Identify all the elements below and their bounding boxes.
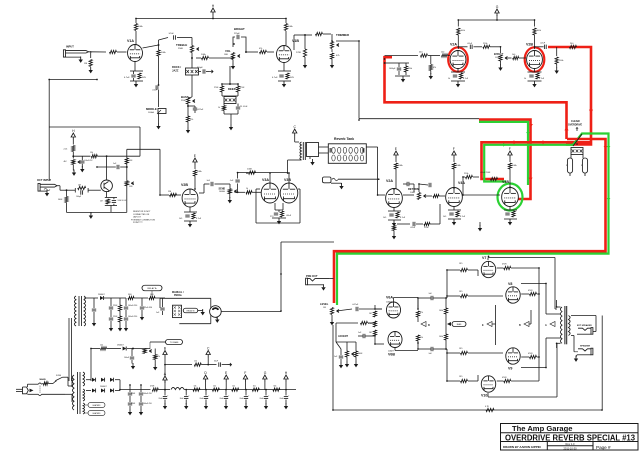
svg-text:100uF-25V: 100uF-25V (85, 160, 94, 162)
svg-text:1k: 1k (246, 188, 248, 190)
svg-text:4.7uF: 4.7uF (272, 77, 278, 79)
svg-text:POSSIBLE CONNECTION: POSSIBLE CONNECTION (131, 219, 155, 221)
svg-text:RELAY B: RELAY B (187, 310, 196, 313)
svg-text:2.2k: 2.2k (64, 149, 68, 151)
svg-text:2N4007: 2N4007 (117, 345, 124, 347)
svg-text:100K 4.7uF: 100K 4.7uF (118, 200, 127, 202)
svg-text:F: F (509, 147, 511, 151)
svg-text:240K: 240K (358, 353, 363, 355)
svg-text:.02uF 250K: .02uF 250K (480, 172, 491, 174)
svg-text:100k: 100k (461, 30, 465, 32)
svg-text:220k: 220k (408, 68, 412, 70)
svg-text:47k: 47k (157, 356, 160, 358)
svg-text:560K: 560K (58, 199, 63, 201)
svg-text:225pF: 225pF (234, 33, 240, 35)
svg-text:267: 267 (100, 201, 103, 203)
svg-text:V1A: V1A (127, 39, 134, 43)
svg-text:BIAS: BIAS (457, 323, 462, 326)
svg-text:1k: 1k (218, 107, 220, 109)
svg-text:12k: 12k (190, 119, 193, 121)
svg-text:V6A: V6A (386, 296, 393, 300)
svg-text:G: G (264, 371, 267, 375)
svg-text:RELAY A: RELAY A (148, 287, 157, 290)
svg-text:.02uF: .02uF (467, 43, 473, 45)
svg-text:470R: 470R (502, 377, 507, 379)
svg-text:Page #: Page # (596, 445, 611, 450)
svg-text:220K: 220K (113, 316, 118, 318)
svg-text:ACCENT: ACCENT (338, 335, 349, 338)
svg-text:TO BIAS: TO BIAS (170, 341, 179, 344)
svg-text:220k: 220k (424, 227, 428, 229)
svg-text:B: B (519, 324, 521, 327)
svg-text:470R: 470R (528, 290, 533, 292)
svg-text:47k: 47k (420, 312, 423, 314)
svg-text:1k: 1k (448, 78, 450, 80)
svg-text:V7: V7 (482, 256, 486, 260)
svg-text:20uF: 20uF (220, 398, 224, 400)
svg-text:V9: V9 (508, 367, 512, 371)
svg-text:BASS: BASS (181, 95, 189, 99)
svg-text:DEEP: DEEP (228, 87, 236, 91)
svg-text:20uF: 20uF (180, 398, 184, 400)
svg-text:DRAWN BY AARON GIPPIN: DRAWN BY AARON GIPPIN (503, 445, 541, 449)
svg-text:47k: 47k (259, 48, 262, 50)
svg-text:100uF: 100uF (124, 357, 130, 359)
svg-text:.02uF: .02uF (410, 227, 416, 229)
svg-text:V2B: V2B (526, 43, 533, 47)
svg-text:2N4007: 2N4007 (98, 294, 105, 296)
svg-text:100KA: 100KA (219, 190, 225, 193)
svg-text:25 .02uF: 25 .02uF (240, 106, 248, 108)
svg-text:.68uF: .68uF (286, 215, 292, 217)
svg-text:1K5: 1K5 (459, 348, 462, 350)
svg-text:G: G (496, 5, 499, 9)
svg-text:4.7uF: 4.7uF (196, 218, 202, 220)
svg-text:1M: 1M (369, 332, 372, 334)
svg-text:2N4007: 2N4007 (100, 386, 107, 388)
svg-text:1K5: 1K5 (459, 263, 462, 265)
svg-text:RETURN: RETURN (408, 187, 419, 191)
svg-text:12AX7: 12AX7 (386, 301, 393, 304)
svg-text:Rev 1.0: Rev 1.0 (566, 442, 575, 446)
svg-text:20uF: 20uF (280, 398, 284, 400)
svg-text:470R: 470R (528, 353, 533, 355)
svg-text:10k: 10k (213, 385, 216, 387)
svg-text:4.7uF: 4.7uF (463, 78, 469, 80)
svg-text:100uF-250: 100uF-250 (143, 393, 152, 395)
svg-text:INPUT: INPUT (66, 45, 74, 49)
svg-text:LEVEL: LEVEL (320, 302, 329, 306)
svg-text:.022uF: .022uF (197, 109, 204, 111)
svg-text:1k2: 1k2 (100, 345, 103, 347)
svg-text:470R: 470R (150, 386, 155, 388)
svg-text:100uF-250: 100uF-250 (143, 403, 152, 405)
svg-text:100kA: 100kA (148, 111, 154, 114)
svg-text:20uF: 20uF (200, 398, 204, 400)
svg-text:47k: 47k (433, 67, 436, 69)
svg-text:.02uF: .02uF (540, 43, 546, 45)
svg-text:TRIMMER: TRIMMER (336, 33, 349, 37)
svg-text:EXT SPEAKER: EXT SPEAKER (577, 324, 592, 327)
svg-text:V2A: V2A (386, 179, 393, 183)
svg-text:V2A: V2A (450, 43, 457, 47)
svg-text:V8: V8 (508, 282, 512, 286)
svg-text:JAZZ: JAZZ (172, 69, 179, 73)
svg-text:4.7uF: 4.7uF (400, 217, 406, 219)
svg-text:1k2: 1k2 (232, 385, 235, 387)
svg-text:.047uF: .047uF (352, 304, 359, 306)
svg-text:SPEAKER: SPEAKER (580, 345, 591, 348)
svg-text:V3B: V3B (284, 178, 291, 182)
svg-text:TREBLE: TREBLE (176, 43, 187, 47)
svg-text:.01uF: .01uF (152, 90, 158, 92)
svg-text:1M: 1M (168, 191, 171, 193)
svg-text:20uF: 20uF (159, 398, 163, 400)
svg-text:V6B: V6B (388, 353, 395, 357)
svg-text:PEDAL: PEDAL (174, 294, 183, 297)
svg-text:.1/2uF: .1/2uF (168, 33, 174, 35)
svg-text:V3A: V3A (262, 178, 269, 182)
svg-text:1M: 1M (323, 307, 326, 309)
svg-text:5k6: 5k6 (273, 385, 276, 387)
svg-text:The Amp Garage: The Amp Garage (512, 424, 572, 433)
svg-text:100k: 100k (439, 310, 443, 312)
svg-text:270K: 270K (214, 87, 219, 89)
svg-text:Reverb Tank: Reverb Tank (334, 137, 354, 141)
svg-text:V4B: V4B (502, 180, 509, 184)
svg-text:250K: 250K (181, 100, 186, 102)
svg-text:100k: 100k (439, 336, 443, 338)
svg-text:MIDDLE: MIDDLE (146, 107, 157, 111)
svg-text:1k0: 1k0 (253, 385, 256, 387)
svg-text:100K: 100K (247, 169, 253, 171)
svg-text:RESISTOR IS NOT: RESISTOR IS NOT (133, 211, 151, 213)
svg-text:V4A: V4A (458, 181, 465, 185)
svg-text:20uF: 20uF (260, 398, 264, 400)
svg-text:100pF: 100pF (76, 196, 82, 198)
svg-text:10k: 10k (194, 385, 197, 387)
svg-text:VOL: VOL (225, 49, 231, 53)
svg-text:F: F (453, 147, 455, 151)
svg-text:HEATERS: HEATERS (93, 404, 102, 407)
svg-text:BRIGHT: BRIGHT (234, 27, 245, 31)
svg-text:1M: 1M (78, 184, 81, 186)
svg-text:12AX7: 12AX7 (388, 350, 395, 353)
svg-text:1M: 1M (369, 313, 372, 315)
svg-text:220K: 220K (113, 305, 118, 307)
svg-text:ROCK /: ROCK / (172, 65, 181, 69)
svg-text:100uF-250: 100uF-250 (128, 305, 137, 307)
svg-text:100K: 100K (410, 192, 416, 194)
svg-text:1000pF: 1000pF (389, 68, 396, 70)
svg-text:270K: 270K (240, 87, 245, 89)
svg-text:POINT???: POINT??? (133, 222, 143, 224)
svg-text:LAYOUT: LAYOUT (133, 216, 142, 219)
svg-text:OVERDRIVE: OVERDRIVE (568, 124, 582, 127)
svg-text:1K5: 1K5 (459, 376, 462, 378)
svg-text:15k: 15k (90, 152, 93, 154)
svg-text:4k2: 4k2 (64, 161, 67, 163)
svg-text:270K: 270K (296, 52, 302, 54)
svg-text:250K: 250K (178, 48, 184, 50)
svg-text:220k: 220k (483, 43, 487, 45)
svg-text:MAINS: MAINS (40, 378, 47, 381)
svg-text:220k: 220k (464, 173, 468, 175)
svg-text:51k: 51k (420, 337, 423, 339)
svg-text:2011-10-30: 2011-10-30 (563, 446, 577, 450)
svg-text:100k: 100k (559, 60, 563, 62)
svg-text:FUSE: FUSE (56, 375, 62, 377)
svg-text:20uF: 20uF (240, 398, 244, 400)
svg-text:PRE OUT: PRE OUT (306, 274, 318, 278)
svg-text:100uF-250: 100uF-250 (128, 316, 137, 318)
svg-text:12k: 12k (194, 361, 197, 363)
svg-text:4.7uF: 4.7uF (460, 216, 466, 218)
svg-text:1k: 1k (524, 78, 526, 80)
svg-text:22uF-350: 22uF-350 (144, 307, 152, 309)
svg-text:OCT INPUT: OCT INPUT (37, 178, 51, 182)
svg-text:CONNECTED ON: CONNECTED ON (133, 214, 150, 216)
svg-text:V10: V10 (481, 394, 487, 398)
svg-text:A: A (545, 324, 547, 327)
svg-text:470R: 470R (502, 264, 507, 266)
svg-text:4.7uF: 4.7uF (124, 77, 130, 79)
svg-text:D: D (428, 323, 430, 327)
svg-text:1M: 1M (84, 63, 87, 65)
svg-text:V1B: V1B (292, 39, 299, 43)
svg-text:HEATERS: HEATERS (93, 412, 102, 415)
svg-text:1K5: 1K5 (459, 291, 462, 293)
svg-text:4.7uF: 4.7uF (539, 78, 545, 80)
svg-text:500pF: 500pF (197, 67, 203, 69)
svg-text:100k: 100k (537, 30, 541, 32)
svg-text:F: F (244, 371, 246, 375)
svg-text:OVERDRIVE REVERB SPECIAL #13: OVERDRIVE REVERB SPECIAL #13 (505, 433, 636, 442)
svg-text:V2B: V2B (181, 183, 188, 187)
